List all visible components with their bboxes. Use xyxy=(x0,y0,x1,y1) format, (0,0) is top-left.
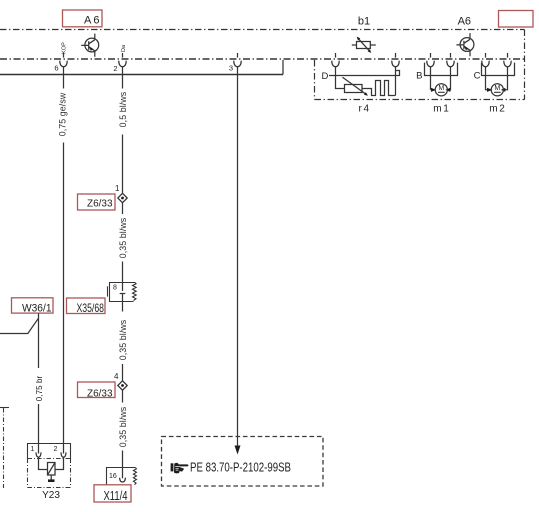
svg-text:1: 1 xyxy=(115,184,120,193)
svg-text:Z6/33: Z6/33 xyxy=(87,198,113,210)
svg-text:16: 16 xyxy=(109,473,117,480)
svg-text:2: 2 xyxy=(54,446,58,453)
svg-text:1: 1 xyxy=(31,446,35,453)
svg-text:W36/1: W36/1 xyxy=(22,303,52,315)
svg-text:C: C xyxy=(474,71,481,82)
svg-text:X35/68: X35/68 xyxy=(77,301,105,315)
svg-text:2: 2 xyxy=(113,64,117,73)
svg-text:0,35 bl/ws: 0,35 bl/ws xyxy=(118,319,128,360)
svg-text:3: 3 xyxy=(229,63,233,72)
svg-text:m2: m2 xyxy=(489,104,505,115)
svg-text:A6: A6 xyxy=(458,15,471,27)
svg-text:Da: Da xyxy=(121,44,127,52)
svg-text:D: D xyxy=(322,71,329,82)
svg-text:b1: b1 xyxy=(358,15,370,27)
svg-text:0,5 bl/ws: 0,5 bl/ws xyxy=(118,91,128,127)
svg-text:M: M xyxy=(494,85,500,92)
svg-text:4: 4 xyxy=(114,372,119,381)
svg-text:0,35 bl/ws: 0,35 bl/ws xyxy=(118,406,128,447)
svg-text:A6: A6 xyxy=(84,14,100,26)
svg-text:Y23: Y23 xyxy=(42,490,60,501)
svg-text:KOP: KOP xyxy=(62,42,68,54)
svg-text:0,35 bl/ws: 0,35 bl/ws xyxy=(118,217,128,258)
svg-text:B: B xyxy=(416,71,422,82)
svg-text:PE 83.70-P-2102-99SB: PE 83.70-P-2102-99SB xyxy=(190,460,291,475)
svg-text:Z6/33: Z6/33 xyxy=(87,388,113,400)
svg-text:0,75 ge/sw: 0,75 ge/sw xyxy=(57,92,67,136)
svg-text:m1: m1 xyxy=(433,104,449,115)
svg-text:6: 6 xyxy=(54,63,58,72)
svg-text:M: M xyxy=(438,85,444,92)
svg-text:r4: r4 xyxy=(359,104,370,115)
svg-text:0,75 br: 0,75 br xyxy=(35,375,44,401)
svg-text:8: 8 xyxy=(113,285,117,292)
svg-text:X11/4: X11/4 xyxy=(104,489,128,503)
